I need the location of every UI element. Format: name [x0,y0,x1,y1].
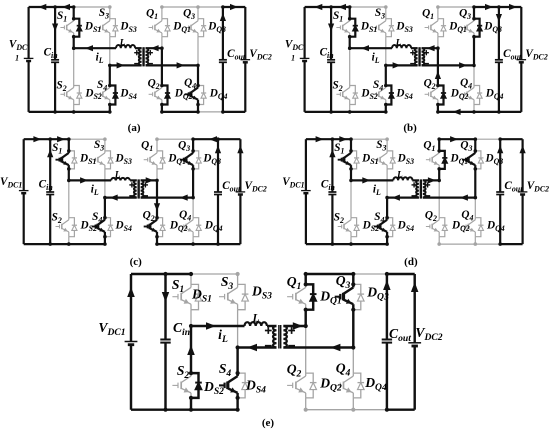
capacitor C_in figd [328,192,336,195]
node figc S1 emitter node [67,167,71,171]
wire figa leg-Q2 to bottom rail [161,105,163,112]
wire arrow primary-bottom figd [392,195,400,201]
node figc top-S3 junction [103,137,107,141]
node primary minus figc [129,195,134,197]
node figd S1S2 midpoint [349,179,353,183]
node figa top-Cin junction [53,5,57,9]
wire figd iL wire [351,179,393,181]
label Q3 figa [183,8,195,22]
node fige Q1Q2 midpoint [304,324,308,328]
label Q1 figb [422,8,434,22]
node figb S4 collector node [384,84,388,88]
node fige top-Cin junction [163,272,167,276]
diode D_Q2 figa [162,86,170,105]
wire arrow top-rail-2 figb [338,4,346,10]
battery V_DC2 figd [518,192,528,195]
node figc Q3 collector node [191,149,195,153]
diode D_Q2 figd [439,218,447,237]
wire figd bottom rail left segment [306,243,387,245]
wire arrow Cout-rail figd [497,145,503,153]
label D_S3 fige [251,284,272,302]
wire figa left rail lower [28,61,30,112]
node figd Q3 collector node [474,149,478,153]
diode D_S2 figc [69,218,77,237]
node figc S1 collector node [67,149,71,153]
svg-text:L: L [395,39,402,49]
wire fige leg-S3 emitter to midpoint [237,310,239,348]
wire figb Cout rail lower [498,62,500,112]
transformer core figd [420,179,421,198]
wire figc leg-S1 top [68,139,70,151]
wire figd left rail upper [305,139,307,190]
wire arrow right-rail figc [237,145,243,153]
label D_S2 figc [79,220,96,234]
wire figc leg-Q3 emitter to midpoint [192,169,194,198]
transistor S3 figb [373,19,386,37]
node figb top-Cin junction [329,5,333,9]
transistor S2 figb [336,86,349,105]
label S3 figc [94,139,104,153]
node figa Q4 emitter node [196,103,200,107]
wire arrow top-Q1Q3 figd [450,136,458,142]
label D_S3 figb [395,21,412,35]
wire fige leg-S3 top [237,274,239,284]
node figc S4 collector node [103,216,107,220]
wire figc bottom rail Q4-Cout segment [193,243,218,245]
node figb S4 emitter node [384,103,388,107]
wire figc leg-S4 to bottom rail [104,237,106,244]
label S3 figd [376,139,386,153]
wire figc leg-S2 midpoint down [68,180,70,217]
wire arrow right-rail figd [520,145,526,153]
label S4 figc [92,211,102,225]
wire figc leg-S1 emitter to midpoint [68,169,70,181]
wire arrow Cin-rail figa [52,24,58,32]
wire figc right rail upper [239,139,241,192]
wire figa leg-Q3 top [197,7,199,19]
wire fige primary bottom [238,346,277,348]
wire fige secondary bottom [283,346,353,348]
diode D_S4 figc [105,218,113,237]
transformer secondary winding figa [146,48,149,65]
label Q1 figa [146,8,158,22]
wire figb leg-Q1 top [437,7,439,19]
wire fige leg-Q3 top [352,274,354,284]
svg-text:(b): (b) [403,122,417,134]
wire figa bottom rail Q2-Q4 segment [162,111,198,113]
node figb bottom-Cout junction [497,110,501,114]
transistor Q2 figc [144,218,157,237]
battery V_DC2 fige [408,343,421,346]
diode D_S3 fige [238,284,249,309]
node primary minus figd [412,195,417,197]
diode D_S2 figa [74,86,82,105]
node figc bottom-S2 junction [67,242,71,246]
node figa S1 emitter node [72,35,76,39]
wire fige left rail upper [130,274,132,342]
wire figb bottom rail Cout-rail segment [499,111,521,113]
wire arrow top-right figc [209,136,217,142]
wire figd top rail S1-S3 segment [351,138,387,140]
wire figb right rail lower [520,62,522,112]
wire figb bottom rail Q4-Cout segment [474,111,499,113]
wire figa secondary bottom [146,64,199,66]
label V_DC1 fige [98,320,125,338]
node fige S2 collector node [189,371,193,375]
wire fige leg-S2 to bottom rail [190,398,192,410]
wire figa leg-S3 top [109,7,111,19]
wire figa top rail Q3-Cout segment [198,6,223,8]
label Q4 fige [336,361,351,379]
node figb S3S4 midpoint [384,64,388,68]
transistor Q1 figb [425,19,438,37]
wire fige secondary top [283,325,305,327]
wire figc Cout rail upper [217,139,219,192]
inductor L figb [392,45,411,48]
node fige Q3Q4 midpoint [351,345,355,349]
label C_out figb [503,48,522,62]
label C_out figd [504,180,523,194]
transistor Q3 figb [461,19,474,37]
label S1 figb [333,10,343,24]
node figd top-Q1 junction [437,137,441,141]
node figa bottom-S4 junction [108,110,112,114]
diode D_S1 figc [69,151,77,169]
diode D_Q1 figa [162,19,170,37]
transistor Q2 figd [426,218,439,237]
node secondary minus figc [143,195,148,197]
transistor Q4 figa [185,86,198,105]
label S2 figa [57,80,67,94]
node figa Q4 collector node [196,84,200,88]
node fige S4 collector node [236,371,240,375]
wire arrow primary-bottom fige [247,344,257,351]
wire arrow Cin-rail figb [328,24,334,32]
wire fige leg-S2 midpoint down [190,326,192,373]
wire figa leg-Q4 midpoint down [197,65,199,85]
transformer core figb [419,47,420,66]
wire figb left rail upper [304,7,306,58]
wire arrow Cout-rail figa [220,13,226,21]
wire arrow primary-bottom figa [117,62,125,68]
wire figa top rail left segment [29,6,74,8]
label D_Q3 figb [483,21,502,35]
caption (b) figb [403,122,417,134]
wire figd leg-Q2 to bottom rail [438,237,440,244]
wire figa bottom rail Cout-rail segment [223,111,245,113]
label Q4 figd [461,209,473,223]
diode D_Q4 figd [475,218,483,237]
diode D_S4 figb [386,86,394,105]
transformer primary winding figd [416,180,419,197]
node figa top-Cout junction [221,5,225,9]
wire fige leg-Q3 emitter to midpoint [352,310,354,348]
diode D_S3 figb [386,19,394,37]
wire figd leg-Q3 top [474,139,476,151]
wire arrow secondary-top figa [151,45,159,51]
wire figb leg-Q3 top [473,7,475,19]
wire figb secondary top [422,47,438,49]
wire fige leg-S1 top [190,274,192,284]
node figd bottom-Cout junction [498,242,502,246]
wire fige L to primary [267,325,277,327]
wire figb primary bottom [386,64,418,66]
wire arrow secondary-bottom figb [459,62,467,68]
wire figb leg-S2 midpoint down [349,48,351,85]
node figc top-Q3 junction [191,137,195,141]
node figd bottom-Q2 junction [437,242,441,246]
wire figa leg-Q1 emitter to midpoint [161,37,163,49]
wire figd bottom rail Cout-rail segment [500,243,522,245]
inductor L figc [111,178,130,181]
capacitor C_out fige [382,340,392,343]
node figa top-S3 junction [108,5,112,9]
svg-text:(c): (c) [130,256,143,268]
label C_in figd [321,179,335,193]
label D_Q3 fige [366,285,389,303]
label D_Q3 figc [202,153,221,167]
label i_L figa [96,52,104,66]
wire fige left rail lower [130,345,132,410]
wire figd right rail lower [521,195,523,245]
wire figa secondary top [146,47,162,49]
transformer secondary winding fige [283,326,286,347]
transistor Q4 figb [461,86,474,105]
label L figd [396,171,403,181]
wire figc leg-Q4 to bottom rail [192,237,194,244]
node secondary plus figd [425,182,430,187]
transistor S2 fige [172,373,191,398]
wire figd leg-S3 emitter to midpoint [386,169,388,198]
wire fige leg-Q1 emitter to midpoint [304,310,306,326]
diode D_S1 fige [191,284,202,309]
transistor Q2 fige [287,373,306,398]
wire figd leg-Q4 to bottom rail [474,237,476,244]
label D_S2 figb [360,88,377,102]
node figc bottom-Cout junction [216,242,220,246]
wire figc leg-S3 emitter to midpoint [104,169,106,198]
node figb Q3Q4 midpoint [472,64,476,68]
node fige top-S1 junction [189,272,193,276]
transistor Q1 figc [144,151,157,169]
node fige S3S4 midpoint [236,345,240,349]
node figa S4 emitter node [108,103,112,107]
capacitor C_out figc [214,192,222,195]
node fige Q1 collector node [304,282,308,286]
transistor S3 fige [219,284,238,309]
wire arrow iL fige [206,322,216,330]
wire arrow iL figa [85,45,93,51]
node primary plus fige [265,327,272,334]
wire figd leg-S1 top [350,139,352,151]
node figd bottom-S4 junction [385,242,389,246]
wire figa leg-S2 midpoint down [73,48,75,85]
label i_L figd [373,184,381,198]
label Q2 figd [425,210,437,224]
diode D_Q1 figd [439,151,447,169]
wire fige top rail left segment [131,273,191,275]
wire arrow Cin-rail fige [162,292,169,302]
wire arrow top-rail-1 figb [314,4,322,10]
node figd S3S4 midpoint [385,196,389,200]
transistor S2 figd [338,218,351,237]
label D_Q4 fige [364,375,387,393]
node figc bottom-Q4 junction [191,242,195,246]
node figd Q3 emitter node [474,167,478,171]
wire figb leg-S1 emitter to midpoint [349,37,351,49]
node figa Q2 emitter node [160,103,164,107]
capacitor C_out figd [496,192,504,195]
node figb Q2 collector node [436,84,440,88]
wire figc bottom rail left segment [24,243,105,245]
label S2 figc [52,212,62,226]
wire figc leg-S3 top [104,139,106,151]
label Q1 figd [423,140,435,154]
label S1 figc [52,142,62,156]
label V_DC1 subscript-1 figa [15,54,19,63]
node figd S4 collector node [385,216,389,220]
wire figb Cin rail lower [330,62,332,112]
wire figb top rail S1-S3 segment [350,6,386,8]
node primary minus figa [134,63,139,65]
wire figa leg-Q4 to bottom rail [197,105,199,112]
diode D_Q4 figb [474,86,482,105]
node fige Q3 emitter node [351,308,355,312]
diode D_Q4 figc [193,218,201,237]
label Q3 figd [460,140,472,154]
wire fige Cin rail upper [164,274,166,340]
diode D_Q1 figb [438,19,446,37]
transistor Q3 figd [462,151,475,169]
wire figd left rail lower [305,193,307,244]
node figc S4 emitter node [103,235,107,239]
wire arrow Cout-rail figb [496,14,502,22]
node figa S1 collector node [72,17,76,21]
battery V_DC1 figb [300,58,310,61]
wire figb Cin rail upper [330,7,332,60]
capacitor C_out figb [495,60,503,63]
wire figc leg-S2 to bottom rail [68,237,70,244]
wire fige right rail lower [413,346,415,410]
wire figa leg-S3 emitter to midpoint [109,37,111,66]
wire arrow right-rail fige [411,282,419,292]
wire fige leg-Q2 to bottom rail [305,398,307,410]
label D_S4 fige [245,378,266,396]
transistor S3 figc [92,151,105,169]
label D_Q1 figd [450,153,469,167]
node figc top-Cin junction [48,137,52,141]
wire figb leg-S1 top [349,7,351,19]
node fige top-S3 junction [236,272,240,276]
label V_DC1 figa [9,39,28,53]
diode D_S1 figd [351,151,359,169]
battery V_DC1 figa [24,58,34,61]
wire figc top rail Q1-Q3 segment [157,138,193,140]
wire figa primary bottom [110,64,142,66]
battery V_DC2 figb [517,60,527,63]
transistor S3 figa [97,19,110,37]
label i_L figc [91,184,99,198]
wire arrow top-right figa [230,4,238,10]
wire figb top rail Q1-Q3 segment [438,6,474,8]
label Q3 fige [336,273,351,291]
wire fige top rail Q1-Q3 segment [306,273,354,275]
node figb S1 collector node [348,17,352,21]
transistor Q1 fige [287,284,306,309]
node fige Q3 collector node [351,282,355,286]
transistor S4 fige [219,373,238,398]
wire figc Cin rail lower [49,195,51,245]
capacitor C_in fige [160,340,170,343]
label D_Q2 figc [169,220,188,234]
svg-text:L: L [119,39,126,49]
node fige bottom-S4 junction [236,408,240,412]
node figa top-Q3 junction [196,5,200,9]
node figd top-Cin junction [331,137,335,141]
transistor Q4 fige [335,373,354,398]
label D_Q4 figc [204,220,223,234]
label D_S1 figc [79,153,96,167]
wire figa leg-S1 top [73,7,75,19]
label S4 figa [97,79,107,93]
label S2 fige [177,363,190,381]
label D_S1 figa [84,21,101,35]
wire arrow iL figb [361,45,369,51]
wire figb L to primary [411,47,418,49]
node fige bottom-Q2 junction [304,408,308,412]
wire figc secondary top [141,179,157,181]
transformer primary winding figc [134,180,137,197]
label S4 figd [374,211,384,225]
wire arrow Cout-rail figc [215,145,221,153]
wire arrow top-rail-2 figa [62,4,70,10]
label C_out fige [389,326,411,344]
capacitor C_in figc [46,192,54,195]
label D_Q4 figa [209,88,228,102]
label V_DC1 subscript-1 figb [291,54,295,63]
wire figd bottom rail Q4-Cout segment [475,243,500,245]
transistor S1 figb [336,19,349,37]
node fige S1S2 midpoint [189,324,193,328]
node figa Q3Q4 midpoint [196,64,200,68]
label i_L fige [218,327,228,345]
wire figd leg-Q1 emitter to midpoint [438,169,440,181]
wire figb Cout rail upper [498,7,500,60]
wire figc leg-Q2 midpoint down [156,180,158,217]
diode D_Q3 figc [193,151,201,169]
wire figc leg-Q4 midpoint down [192,198,194,218]
diode D_S4 figd [387,218,395,237]
node primary minus figb [410,63,415,65]
wire figd leg-S3 top [386,139,388,151]
label Q2 figb [424,78,436,92]
label D_Q2 figb [450,88,469,102]
wire arrow secondary-bottom figc [180,195,188,201]
wire arrow top-rail-2 figc [57,136,65,142]
wire arrow secondary-top figc [146,177,154,183]
wire figd leg-Q1 top [438,139,440,151]
capacitor C_in figa [51,60,59,63]
label S3 figa [99,7,109,21]
node secondary plus figa [148,50,153,55]
node primary plus figa [134,50,139,55]
wire figa leg-S1 emitter to midpoint [73,37,75,49]
wire figc Cout rail lower [217,195,219,245]
transformer primary winding figa [139,48,142,65]
svg-text:L: L [114,171,121,181]
node figc Q2 collector node [155,216,159,220]
inductor L figd [393,177,412,180]
